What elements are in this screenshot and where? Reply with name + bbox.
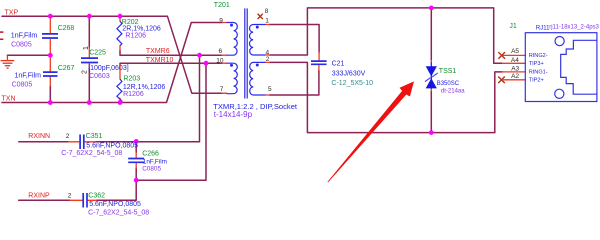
svg-text:RJ11: RJ11 [536, 26, 550, 32]
svg-text:2: 2 [66, 133, 70, 140]
svg-text:C0805: C0805 [11, 42, 32, 49]
svg-text:1: 1 [83, 46, 90, 50]
svg-text:B350SC: B350SC [437, 81, 460, 87]
svg-text:C21: C21 [332, 60, 345, 67]
svg-text:t-14x14-9p: t-14x14-9p [214, 110, 253, 119]
svg-text:TXP: TXP [5, 9, 19, 16]
svg-text:10: 10 [216, 57, 224, 64]
svg-text:333J/630V: 333J/630V [332, 70, 366, 77]
svg-text:rj11-18x13_2-4ps3: rj11-18x13_2-4ps3 [549, 24, 599, 30]
svg-text:[100pF,0603]: [100pF,0603] [88, 65, 129, 72]
svg-text:7: 7 [220, 86, 224, 93]
svg-text:9: 9 [219, 17, 223, 24]
svg-text:RXINN: RXINN [28, 133, 50, 140]
svg-text:T201: T201 [214, 2, 230, 9]
svg-text:J1: J1 [509, 23, 517, 30]
svg-text:R1206: R1206 [125, 32, 146, 39]
svg-text:TIP3+: TIP3+ [529, 61, 544, 67]
svg-text:C0805: C0805 [12, 81, 33, 88]
svg-text:C-12_5X5-10: C-12_5X5-10 [331, 80, 373, 87]
svg-text:TXN: TXN [2, 96, 16, 103]
svg-text:2: 2 [82, 70, 89, 74]
svg-text:C-7_62X2_54-5_08: C-7_62X2_54-5_08 [61, 150, 122, 157]
svg-text:C267: C267 [58, 65, 75, 72]
svg-text:5.6nF,NPO,0805: 5.6nF,NPO,0805 [89, 201, 141, 208]
svg-text:C0603: C0603 [89, 73, 110, 80]
svg-text:A4: A4 [511, 57, 519, 64]
svg-text:RING1-: RING1- [529, 70, 548, 76]
svg-text:1: 1 [265, 17, 269, 24]
svg-text:C225: C225 [89, 49, 106, 56]
svg-text:12R,1%,1206: 12R,1%,1206 [123, 84, 166, 91]
svg-text:A2: A2 [511, 73, 519, 80]
svg-text:C351: C351 [86, 133, 103, 140]
svg-text:5: 5 [268, 86, 272, 93]
svg-text:RING2-: RING2- [529, 53, 548, 59]
svg-text:A5: A5 [511, 48, 519, 55]
svg-text:A3: A3 [511, 65, 519, 72]
svg-text:8: 8 [265, 8, 269, 15]
svg-text:5.6nF,NPO,0805: 5.6nF,NPO,0805 [86, 142, 138, 149]
svg-text:2: 2 [68, 192, 72, 199]
svg-text:TXMR6: TXMR6 [146, 48, 170, 55]
svg-text:C362: C362 [88, 192, 105, 199]
svg-text:1nF,Film: 1nF,Film [143, 158, 167, 165]
svg-text:C0805: C0805 [142, 165, 161, 172]
svg-text:2: 2 [266, 56, 270, 63]
svg-text:6: 6 [219, 48, 223, 55]
svg-text:C268: C268 [58, 25, 75, 32]
svg-text:1nF,Film: 1nF,Film [15, 73, 42, 80]
svg-text:TIP2+: TIP2+ [529, 78, 544, 84]
svg-text:TSS1: TSS1 [439, 68, 457, 75]
svg-text:dt-214aa: dt-214aa [441, 88, 465, 94]
svg-text:R1206: R1206 [123, 91, 144, 98]
svg-text:R203: R203 [123, 75, 140, 82]
svg-text:C-7_62X2_54-5_08: C-7_62X2_54-5_08 [88, 209, 149, 216]
svg-text:1nF,Film: 1nF,Film [11, 32, 38, 39]
svg-text:C266: C266 [142, 150, 159, 157]
svg-text:TXMR10: TXMR10 [146, 57, 174, 64]
svg-text:RXINP: RXINP [28, 193, 50, 200]
